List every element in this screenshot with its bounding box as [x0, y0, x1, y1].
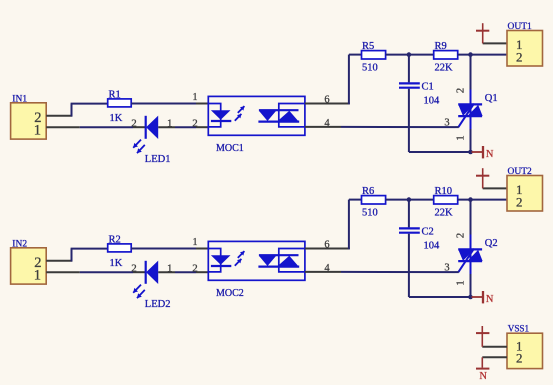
- pin 4 of MOC1: [305, 126, 341, 128]
- svg-text:2: 2: [131, 117, 137, 129]
- svg-text:R6: R6: [362, 186, 374, 197]
- MOC1 internal LED: [211, 110, 231, 120]
- svg-text:104: 104: [424, 240, 441, 251]
- wire MOC pin4 to gate: [341, 126, 455, 128]
- svg-text:LED1: LED1: [145, 154, 171, 165]
- svg-text:510: 510: [362, 207, 378, 218]
- wire R to optocoupler pin 1: [131, 103, 196, 105]
- power port bar (line): [482, 23, 484, 43]
- wire triac to N node: [470, 129, 472, 152]
- power port N at VSS1: [481, 357, 483, 367]
- wire rail down to triac: [470, 200, 472, 235]
- svg-text:MOC2: MOC2: [216, 288, 244, 299]
- svg-text:2: 2: [192, 117, 198, 129]
- resistor R2: [108, 244, 132, 252]
- wire IN pin2 stub: [46, 260, 72, 262]
- MOC2 internal LED leads: [208, 249, 220, 272]
- junction at N node: [468, 295, 473, 300]
- junction at Q top: [468, 52, 473, 57]
- power port bar (line) at VSS1: [481, 326, 483, 347]
- pin 6 of MOC1: [305, 103, 350, 105]
- wire rail to OUT pin2: [458, 54, 507, 56]
- MOC2 light arrows: [238, 251, 245, 258]
- svg-text:1: 1: [167, 262, 173, 274]
- svg-text:22K: 22K: [435, 62, 454, 73]
- gate lead of Q2: [458, 249, 474, 272]
- svg-text:Q1: Q1: [485, 93, 498, 104]
- svg-text:1: 1: [455, 135, 466, 140]
- MOC2 internal triac: [259, 254, 299, 256]
- svg-text:OUT1: OUT1: [508, 22, 533, 32]
- MOC1 internal LED leads: [208, 104, 220, 127]
- MOC2 internal triac leads: [279, 249, 305, 272]
- svg-text:104: 104: [424, 95, 441, 106]
- wire LED to optocoupler pin 2: [158, 271, 175, 273]
- svg-text:VSS1: VSS1: [508, 323, 530, 333]
- gate lead of Q1: [458, 104, 474, 127]
- wire IN pin1 to LED: [46, 126, 80, 128]
- svg-text:2: 2: [455, 233, 466, 238]
- triac Q2: [470, 235, 472, 276]
- wire C top lead: [408, 55, 410, 83]
- svg-text:2: 2: [516, 194, 523, 209]
- wire C top lead: [408, 200, 410, 228]
- svg-text:R2: R2: [109, 234, 121, 245]
- optocoupler MOC1 body: [208, 96, 305, 135]
- MOC1 internal triac: [259, 109, 299, 111]
- svg-text:N: N: [486, 294, 494, 305]
- svg-text:R10: R10: [435, 186, 453, 197]
- svg-text:IN1: IN1: [12, 94, 27, 104]
- connector IN1: [11, 103, 47, 139]
- svg-text:1: 1: [167, 117, 173, 129]
- wire C to N node: [409, 151, 471, 153]
- connector VSS1: [507, 333, 543, 368]
- svg-text:IN2: IN2: [12, 239, 27, 249]
- capacitor C2: [399, 227, 420, 229]
- wire to R series: [71, 248, 108, 250]
- svg-text:1K: 1K: [110, 258, 123, 269]
- capacitor C1: [399, 82, 420, 84]
- wire vertical jog: [71, 104, 73, 117]
- power port N: [472, 151, 483, 153]
- svg-text:LED2: LED2: [145, 299, 171, 310]
- svg-text:22K: 22K: [435, 207, 454, 218]
- svg-text:C1: C1: [422, 81, 434, 92]
- svg-text:1: 1: [34, 123, 41, 139]
- svg-text:1K: 1K: [110, 113, 123, 124]
- LED light arrows: [133, 285, 141, 293]
- pin 6 of MOC2: [305, 248, 350, 250]
- svg-text:1: 1: [455, 280, 466, 285]
- svg-text:2: 2: [455, 88, 466, 93]
- resistor R5: [362, 51, 386, 59]
- svg-text:4: 4: [324, 263, 330, 274]
- wire IN pin1 to LED: [46, 271, 80, 273]
- LED LED2: [145, 261, 147, 284]
- wire OUT pin1: [483, 187, 507, 189]
- svg-text:R5: R5: [362, 41, 374, 52]
- junction at C top: [407, 52, 412, 57]
- svg-text:C2: C2: [422, 226, 434, 237]
- resistor R10: [434, 196, 458, 204]
- svg-text:R1: R1: [109, 89, 121, 100]
- optocoupler MOC2 body: [208, 241, 305, 280]
- svg-text:1: 1: [193, 237, 198, 248]
- resistor R1: [108, 99, 132, 107]
- wire IN pin2 stub: [46, 115, 72, 117]
- resistor R6: [362, 196, 386, 204]
- svg-text:2: 2: [516, 49, 523, 64]
- wire rail segment: [386, 199, 434, 201]
- wire R to optocoupler pin 1: [131, 248, 196, 250]
- power port bar (line): [482, 168, 484, 188]
- junction at Q top: [468, 197, 473, 202]
- wire triac to N node: [470, 274, 472, 297]
- svg-text:Q2: Q2: [485, 238, 498, 249]
- connector IN2: [11, 248, 47, 284]
- wire C bottom lead: [408, 234, 410, 297]
- svg-text:N: N: [486, 149, 494, 160]
- svg-text:2: 2: [131, 262, 137, 274]
- connector OUT2: [507, 176, 543, 212]
- svg-text:MOC1: MOC1: [216, 143, 244, 154]
- junction at C top: [407, 197, 412, 202]
- power port N: [472, 296, 483, 298]
- connector OUT1: [507, 31, 543, 67]
- wire pin6 to rail: [348, 200, 350, 250]
- svg-text:1: 1: [34, 268, 41, 284]
- wire OUT pin1: [483, 42, 507, 44]
- svg-text:OUT2: OUT2: [508, 167, 533, 177]
- wire pin6 to rail: [348, 55, 350, 105]
- svg-text:R9: R9: [435, 41, 447, 52]
- LED LED1: [145, 116, 147, 139]
- wire to R series: [71, 103, 108, 105]
- wire VSS1 pin1: [482, 346, 507, 348]
- svg-text:4: 4: [324, 118, 330, 129]
- svg-text:2: 2: [192, 262, 198, 274]
- LED light arrows: [133, 140, 141, 148]
- resistor R9: [434, 51, 458, 59]
- svg-text:510: 510: [362, 62, 378, 73]
- MOC1 light arrows: [238, 106, 245, 113]
- svg-text:6: 6: [324, 239, 329, 250]
- MOC2 internal LED: [211, 255, 231, 265]
- wire C to N node: [409, 296, 471, 298]
- svg-text:2: 2: [516, 350, 523, 365]
- wire rail to OUT pin2: [458, 199, 507, 201]
- svg-text:1: 1: [193, 92, 198, 103]
- junction at N node: [468, 150, 473, 155]
- wire rail down to triac: [470, 55, 472, 90]
- MOC1 internal triac leads: [279, 104, 305, 127]
- wire VSS1 pin2: [482, 356, 507, 358]
- wire C bottom lead: [408, 89, 410, 152]
- triac Q1: [470, 90, 472, 131]
- pin 4 of MOC2: [305, 271, 341, 273]
- wire rail segment: [386, 54, 434, 56]
- svg-text:N: N: [479, 371, 487, 382]
- wire MOC pin4 to gate: [341, 271, 455, 273]
- wire vertical jog: [71, 249, 73, 262]
- wire LED to optocoupler pin 2: [158, 126, 175, 128]
- svg-text:6: 6: [324, 94, 329, 105]
